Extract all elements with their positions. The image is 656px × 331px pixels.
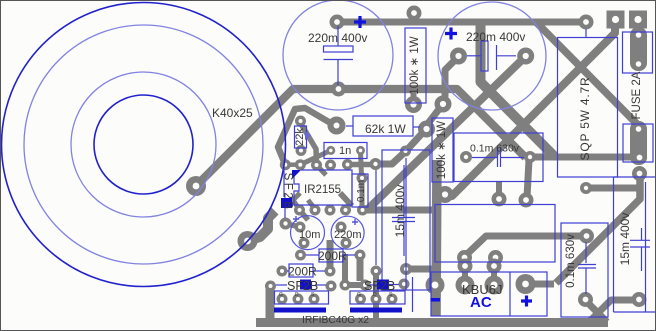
box mosfet1 [275, 291, 329, 304]
svg-text:220m 400v: 220m 400v [308, 31, 367, 45]
box 0.1m [352, 174, 368, 207]
pad 62k left [328, 117, 346, 135]
svg-text:FUSE 2A: FUSE 2A [631, 71, 643, 119]
wire kbu ac stubs [462, 259, 468, 283]
pad top bus left [330, 15, 345, 30]
wire diag D from pad 640,174 down-left to kbu plus [556, 174, 640, 283]
diode1 silk line [375, 170, 377, 265]
pad 10m minus [299, 238, 310, 249]
pad 1n right [356, 146, 365, 155]
svg-text:G: G [279, 292, 283, 298]
pad via 405,151 [400, 146, 411, 157]
pad fuse area 640,174 [632, 166, 647, 181]
pad X1 [607, 11, 625, 29]
pad 200R2 left [277, 266, 288, 277]
cap 10m circle [291, 216, 325, 250]
wire m2 pad link [345, 282, 365, 288]
sf2b2 band [300, 280, 311, 290]
pad cap2 left [450, 48, 467, 65]
box 22k [295, 126, 307, 148]
svg-text:0.1m 630v: 0.1m 630v [470, 143, 520, 155]
wire via 586,188 to pad under fuse [586, 185, 640, 192]
wire 22k top to pad 316 [301, 123, 317, 165]
box ir2155 [294, 170, 352, 205]
pad 15m1 top [370, 158, 382, 170]
wire pin1 to 10m area [300, 210, 309, 220]
pad kbu ac2 [485, 276, 504, 295]
svg-text:SQP 5W 4.7R: SQP 5W 4.7R [578, 77, 592, 161]
pad 100k1 top [407, 6, 422, 21]
box 1n [324, 143, 367, 159]
diode1 silk lead [283, 168, 285, 197]
box 200R2 [289, 264, 313, 277]
pad via586 [580, 182, 592, 194]
cap1 symbol [337, 26, 339, 46]
pad 100k2 top [435, 96, 452, 113]
box mosfet2 [350, 291, 405, 304]
wire mosfet1 source riser [327, 240, 334, 271]
pad dip row bottom [294, 205, 305, 216]
wire ir2155 internal [293, 193, 300, 209]
pad 0.1m630 left [460, 151, 472, 163]
svg-text:SF2B: SF2B [282, 173, 294, 212]
wire 100k1 bottom pad stub to y91 trace [411, 88, 417, 102]
pad 1n left [326, 146, 335, 155]
pad secondary winding lead [238, 231, 258, 251]
wire SQP diagonal from square pad to pad 446,196 [447, 24, 615, 196]
cap 0.1m630v2 symbol [578, 242, 596, 294]
mosfet heatsink bars [274, 308, 326, 313]
wire diode1 bottom to 10m plus [286, 224, 301, 228]
svg-text:SF2B: SF2B [364, 279, 395, 293]
box fuse top [623, 32, 653, 73]
wire stub pad to bus [412, 13, 417, 22]
pad 0.1m630 right [524, 151, 536, 163]
pad 0.1m bottom [357, 205, 368, 216]
svg-text:62k 1W: 62k 1W [365, 122, 406, 136]
pad row 165 [280, 159, 291, 170]
wire 1n right down to 0.1m top [361, 152, 362, 176]
wire m2 gate riser [357, 255, 364, 281]
pad sf2b2 right [326, 281, 337, 292]
svg-text:1n: 1n [339, 145, 351, 157]
wire 0.1m bottom pad to vertical [363, 207, 436, 214]
vertical texts (rotated, reading bottom to top) [282, 36, 644, 288]
box 200R1 [319, 249, 343, 262]
cap 220m2 circle [331, 216, 364, 249]
cap 15m2 symbol [630, 228, 650, 271]
pad m1 drain top [371, 266, 382, 277]
svg-text:D: D [295, 292, 299, 298]
svg-text:0.1m 630v: 0.1m 630v [565, 234, 577, 288]
box 100k2 [432, 118, 453, 182]
pad sf2b3 left [360, 280, 371, 291]
pad 200R2 right [325, 266, 336, 277]
cap1 circle [283, 0, 393, 110]
pad kbu plus [516, 274, 536, 294]
svg-text:AC: AC [470, 294, 492, 311]
pad 100k1 bottom [405, 96, 422, 113]
box fuse bottom [623, 124, 653, 162]
fuse F1 top clip pad [630, 27, 647, 71]
wire cap2 left pad down to 100k2 top pad [443, 57, 458, 103]
wire fuse2 right bottom pad trace [525, 281, 554, 288]
svg-text:220m: 220m [334, 229, 362, 241]
pad 220m2 minus [341, 238, 352, 249]
wire vertical to KBU minus pad [436, 160, 437, 316]
cap 15m1 symbol [392, 165, 415, 256]
wire fuse bottom feed [530, 154, 632, 161]
pad diode1 bottom [280, 218, 292, 230]
pad 15m1 bottom [400, 263, 412, 275]
wire bottom right pads link [589, 300, 639, 322]
plus marker cap2 [445, 28, 457, 40]
svg-text:15m 400v: 15m 400v [393, 185, 407, 238]
box 100k1 [405, 28, 426, 103]
pad kbu ac1 [456, 276, 475, 295]
wire pad 446 stub [439, 193, 446, 199]
svg-text:D: D [373, 292, 377, 298]
pad top bus right [579, 15, 594, 30]
svg-text:0.1m: 0.1m [356, 180, 367, 202]
transformer circles [2, 3, 286, 287]
pad 0.1m630v2 top [579, 229, 594, 244]
svg-text:220m 400v: 220m 400v [466, 30, 525, 44]
svg-text:K40x25: K40x25 [212, 106, 253, 120]
wire bus vertical at 480 down to fuse feed [481, 22, 554, 158]
sf2b2 leads [276, 284, 287, 286]
pad 0.1m top [357, 173, 368, 184]
pad sf2b2 left [265, 281, 276, 292]
box 62k [353, 116, 413, 136]
svg-text:SF2B: SF2B [287, 279, 318, 293]
cap symbols blue [324, 26, 651, 294]
fuse F1 bottom clip pad [630, 121, 647, 165]
kbu plus [521, 296, 532, 307]
plus 220m2 [352, 219, 358, 225]
wire square pad 2 stub to fuse clip [635, 24, 642, 34]
kbu minus [431, 298, 441, 302]
pad X2 [629, 11, 647, 29]
pad 0.1m630v2 bottom [578, 292, 593, 307]
svg-text:10m: 10m [299, 229, 320, 241]
svg-text:15m 400v: 15m 400v [618, 213, 632, 266]
cap2 symbol [467, 55, 481, 57]
wire stub into ir box [317, 165, 327, 175]
box 0.1m630v2 [561, 223, 608, 317]
pad 100k2 bottom / sqp end [437, 186, 454, 203]
pad kbu minus [426, 276, 445, 295]
svg-text:IRFIBC40G x2: IRFIBC40G x2 [302, 315, 369, 326]
wire pad 300 to 1n left pad [300, 150, 331, 164]
pad sf2b3 right [399, 279, 410, 290]
sf2b3 leads [370, 284, 377, 286]
pad 200R1 left [295, 250, 306, 261]
plus 10m [293, 216, 299, 222]
wire diagonal from transformer pad to cap1 and onward to 0.1m630v right pad [196, 89, 526, 186]
wire diode2 riser [278, 108, 334, 164]
pad 22k bottom [296, 145, 307, 156]
svg-text:100k ∗ 1W: 100k ∗ 1W [409, 36, 421, 94]
pad 22k top [295, 116, 306, 127]
pad cap2 right [517, 48, 534, 65]
wire from pad 247 up to pad 280,211 [248, 211, 276, 241]
pad transformer lead [186, 176, 206, 196]
cap2 circle [438, 2, 546, 110]
box 0.1m630v [454, 133, 543, 182]
svg-text:IR2155: IR2155 [304, 184, 341, 196]
wire 15m1 bottom to vertical [406, 266, 433, 273]
svg-text:G: G [357, 292, 361, 298]
pad 220m2 plus [336, 222, 347, 233]
pad 345,285 [340, 280, 351, 291]
sf2b3 band [377, 280, 389, 290]
ir2155 pin1 triangle [292, 170, 301, 179]
pad cap1 bottom [331, 82, 346, 97]
pad bottom right [632, 292, 647, 307]
pad fuse feed end [632, 150, 647, 165]
wire 0.1m630 pads stubs [496, 182, 502, 199]
plus marker top1 [354, 16, 366, 28]
cap 0.1m630v symbol [472, 147, 524, 167]
svg-text:100k ∗ 1W: 100k ∗ 1W [436, 121, 448, 179]
pad mosfet1 pins [277, 294, 288, 305]
pad 10m plus [295, 222, 306, 233]
sf2b1 band [281, 198, 292, 208]
box sqp [558, 38, 618, 178]
wire T6 kbu to 0.1m630v2 top [464, 236, 586, 257]
pad row198 [492, 192, 507, 207]
pad mosfet2 pins [355, 294, 366, 305]
svg-text:22k: 22k [294, 128, 306, 146]
svg-text:200R: 200R [318, 249, 347, 263]
svg-text:200R: 200R [288, 265, 317, 279]
wire pads row link [285, 162, 300, 167]
wire bus to fuse diagonal [536, 22, 637, 124]
box 15m1 [382, 150, 430, 290]
wire m2 drain to bus [373, 274, 379, 318]
box kbu [431, 272, 547, 316]
wire m2 riser [342, 254, 348, 285]
wire 0.1m cap area stub [360, 180, 365, 208]
pad 200R1 right [355, 250, 366, 261]
wire 100k2 chain down to 15m top [426, 104, 443, 126]
wire band R2 from cap2 right pad down to 0.1m bottom pad [367, 56, 526, 210]
box secondary area [435, 205, 555, 263]
box 15m2 area [614, 176, 656, 178]
wire bottom bus [256, 318, 608, 327]
wire top horizontal bus [337, 19, 586, 26]
22k arrow [305, 131, 311, 140]
wire 0.1m630v2 bottom pad to bus [585, 300, 607, 322]
pad 62k right [418, 121, 435, 138]
